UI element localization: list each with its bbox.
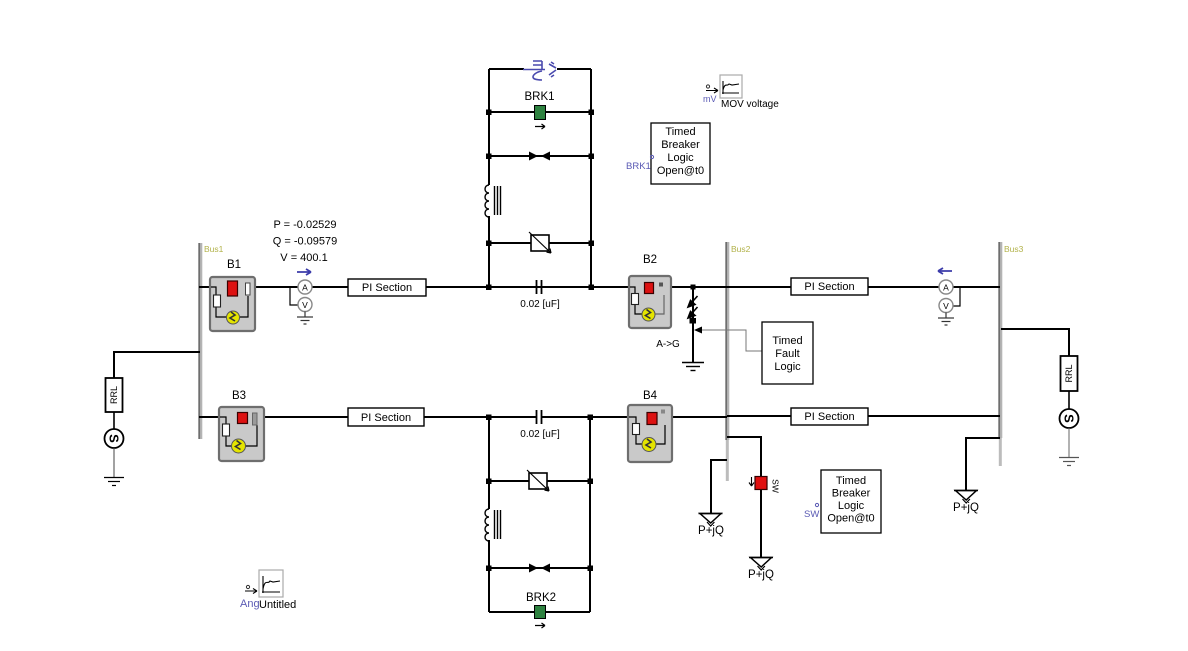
svg-text:P+jQ: P+jQ	[748, 569, 774, 581]
diode arrows top	[529, 152, 538, 161]
svg-text:Logic: Logic	[667, 152, 694, 164]
capacitor C row2	[537, 410, 542, 424]
block Timed Fault Logic	[762, 322, 813, 384]
node dot diode row left	[486, 154, 492, 160]
svg-text:V: V	[943, 301, 949, 311]
node dot diode row2 left	[486, 566, 492, 572]
arrow below BRK2	[535, 623, 545, 628]
svg-text:PI Section: PI Section	[361, 412, 411, 424]
wire load3 from Bus3	[966, 438, 1000, 490]
svg-text:Logic: Logic	[774, 361, 801, 373]
node dot diode row2 right	[588, 566, 594, 572]
svg-text:B1: B1	[227, 259, 241, 271]
bus Bus2	[725, 242, 727, 440]
svg-text:A: A	[302, 283, 308, 293]
svg-text:Timed: Timed	[665, 126, 695, 138]
wire row2 Bus2 to PI section	[727, 415, 792, 417]
signal label BRK1 blue	[626, 155, 654, 172]
node dot row2 branch left	[486, 415, 492, 421]
varistor (MOV) top	[529, 232, 551, 253]
wire row2 PI section to capacitor	[424, 416, 536, 418]
svg-text:B2: B2	[643, 254, 657, 266]
wire top-branch top horizontal	[489, 68, 524, 70]
wire top-branch right vertical	[590, 69, 592, 287]
svg-text:A->G: A->G	[656, 339, 680, 350]
wire row2 PI section to Bus3	[866, 415, 1000, 417]
wire row2 B3 to PI section	[263, 416, 348, 418]
svg-text:PI Section: PI Section	[804, 281, 854, 293]
blue arrow left above ammeter right	[938, 268, 952, 274]
load P+jQ left triangle	[699, 514, 723, 527]
wire SW to load	[760, 489, 762, 557]
svg-text:Bus3: Bus3	[1004, 244, 1024, 254]
arrowhead fault control	[694, 327, 702, 334]
wire row1 PI section to B2	[424, 286, 629, 288]
ground right source	[1059, 458, 1079, 466]
fault arrows symbol	[688, 296, 698, 324]
resistor RRL right	[1061, 356, 1078, 391]
svg-text:A: A	[943, 283, 949, 293]
breaker BRK2 green square	[535, 606, 546, 619]
block Timed Breaker Logic top	[651, 123, 710, 184]
wire bottom-branch right vertical	[589, 417, 591, 612]
meter MOV voltage	[706, 75, 742, 98]
PI section box row2 right	[791, 408, 868, 425]
svg-text:0.02 [uF]: 0.02 [uF]	[520, 299, 560, 310]
node dot varistor row2 left	[486, 479, 492, 485]
signal label SW blue	[804, 503, 819, 520]
svg-text:Timed: Timed	[836, 475, 866, 487]
svg-text:0.02 [uF]: 0.02 [uF]	[520, 429, 560, 440]
wire load1 from Bus2	[711, 460, 727, 513]
load P+jQ under SW triangle	[749, 558, 773, 571]
node dot varistor row2 right	[588, 479, 594, 485]
wire diode row top	[489, 155, 591, 157]
svg-text:Q = -0.09579: Q = -0.09579	[273, 236, 338, 248]
svg-text:Bus2: Bus2	[731, 244, 751, 254]
svg-text:P+jQ: P+jQ	[953, 502, 979, 514]
svg-text:S: S	[107, 434, 122, 443]
current meter blue glyph on top wire	[523, 61, 556, 80]
wire RRL to source right	[1068, 391, 1070, 409]
svg-text:S: S	[1062, 414, 1077, 423]
wire bottom-branch left vertical upper	[488, 417, 490, 509]
svg-text:V = 400.1: V = 400.1	[280, 252, 327, 264]
svg-text:B3: B3	[232, 390, 246, 402]
wire row1 Bus1 to B1	[199, 286, 211, 288]
wire row1 PI section to Bus3	[866, 286, 1000, 288]
node dot diode row right	[589, 154, 595, 160]
arrow below BRK1	[535, 124, 545, 129]
breaker BRK1 green square	[535, 106, 546, 120]
PI section box row1 right	[791, 278, 868, 295]
wire left source to Bus1	[114, 352, 200, 378]
meter Untitled (Ang)	[245, 570, 283, 597]
wire row2 B4 to Bus2	[671, 416, 727, 418]
wire row1 B1 to PI section	[255, 286, 348, 288]
wire top-branch left vertical upper	[488, 216, 490, 287]
source V2 right	[1060, 409, 1079, 428]
PI section box row1 left	[348, 279, 426, 296]
svg-text:BRK2: BRK2	[526, 592, 556, 604]
svg-text:B4: B4	[643, 390, 658, 402]
wire Bus3 to RRL right	[1001, 329, 1069, 356]
ground fault	[682, 363, 704, 371]
bus Bus1	[198, 243, 200, 439]
blue arrow right above ammeter left	[297, 269, 311, 275]
svg-text:Breaker: Breaker	[832, 488, 871, 500]
wire row1 Bus2 to PI section	[727, 286, 792, 288]
wire bottom-branch bottom horizontal	[489, 611, 590, 613]
voltmeter loop wire left	[290, 288, 298, 305]
svg-text:SW: SW	[771, 479, 781, 493]
wire SW branch from Bus2	[727, 437, 761, 477]
svg-text:Untitled: Untitled	[259, 599, 296, 611]
switch SW red square	[749, 477, 781, 493]
breaker box B2	[629, 276, 671, 328]
wire varistor row top	[489, 242, 591, 244]
wire BRK1 row	[489, 111, 591, 113]
svg-text:Fault: Fault	[775, 348, 799, 360]
svg-text:mV: mV	[703, 94, 717, 104]
control wire fault logic	[700, 330, 762, 351]
svg-text:V: V	[302, 300, 308, 310]
node dot varistor row right	[589, 241, 595, 247]
resistor RRL left	[106, 378, 123, 412]
wire varistor row bottom	[489, 480, 590, 482]
source V1 left	[105, 429, 124, 448]
svg-text:MOV voltage: MOV voltage	[721, 99, 779, 110]
bus Bus3	[998, 242, 1000, 438]
ammeter A left	[298, 280, 312, 294]
load P+jQ right triangle	[954, 491, 978, 504]
block Timed Breaker Logic bottom	[821, 470, 881, 533]
wire diode row bottom	[489, 567, 590, 569]
svg-text:P+jQ: P+jQ	[698, 525, 724, 537]
wire top-branch left vertical above inductor	[488, 69, 490, 185]
svg-text:PI Section: PI Section	[362, 282, 412, 294]
breaker box B4	[628, 405, 672, 462]
wire row2 capacitor to B4	[542, 416, 629, 418]
voltmeter V left	[298, 298, 312, 312]
ground voltmeter left	[297, 312, 313, 325]
node dot fault tap	[691, 285, 696, 290]
inductor bottom branch	[485, 509, 501, 541]
wire RRL to source left	[113, 412, 115, 429]
svg-text:PI Section: PI Section	[804, 411, 854, 423]
svg-text:Breaker: Breaker	[661, 139, 700, 151]
svg-text:Open@t0: Open@t0	[827, 513, 874, 525]
svg-text:SW: SW	[804, 509, 819, 520]
node dot row2 branch right	[588, 415, 594, 421]
breaker box B3	[219, 407, 264, 461]
svg-text:BRK1: BRK1	[626, 161, 651, 172]
node dot varistor row left	[486, 241, 492, 247]
node dot BRK1 row right	[589, 110, 595, 116]
ammeter A right	[939, 280, 953, 294]
capacitor C row1	[537, 280, 542, 294]
node dot BRK1 row left	[486, 110, 492, 116]
ground voltmeter right	[938, 313, 954, 326]
wire row1 B2 to Bus2	[670, 286, 727, 288]
svg-text:BRK1: BRK1	[524, 91, 554, 103]
voltmeter V right	[939, 299, 953, 313]
svg-text:Timed: Timed	[772, 335, 802, 347]
inductor top branch	[485, 185, 501, 217]
svg-text:RRL: RRL	[109, 386, 119, 404]
wire source to ground left	[113, 448, 115, 477]
wire source to ground right	[1068, 428, 1070, 457]
diode arrows bottom	[529, 564, 538, 573]
svg-text:Open@t0: Open@t0	[657, 165, 704, 177]
svg-text:Logic: Logic	[838, 500, 865, 512]
varistor (MOV) bottom	[527, 470, 549, 491]
node dot row1 branch left	[486, 285, 492, 291]
wire fault vertical	[692, 287, 694, 362]
svg-text:Bus1: Bus1	[204, 244, 224, 254]
wire bottom-branch left vertical lower	[488, 540, 490, 612]
breaker box B1	[210, 277, 255, 331]
svg-text:RRL: RRL	[1064, 364, 1074, 382]
svg-text:Ang: Ang	[240, 598, 260, 610]
ground left source	[104, 478, 124, 486]
voltmeter loop wire right	[953, 288, 960, 306]
node dot row1 branch right	[589, 285, 595, 291]
svg-text:P = -0.02529: P = -0.02529	[273, 219, 336, 231]
wire row2 Bus1 to B3	[199, 416, 220, 418]
PI section box row2 left	[348, 408, 424, 426]
